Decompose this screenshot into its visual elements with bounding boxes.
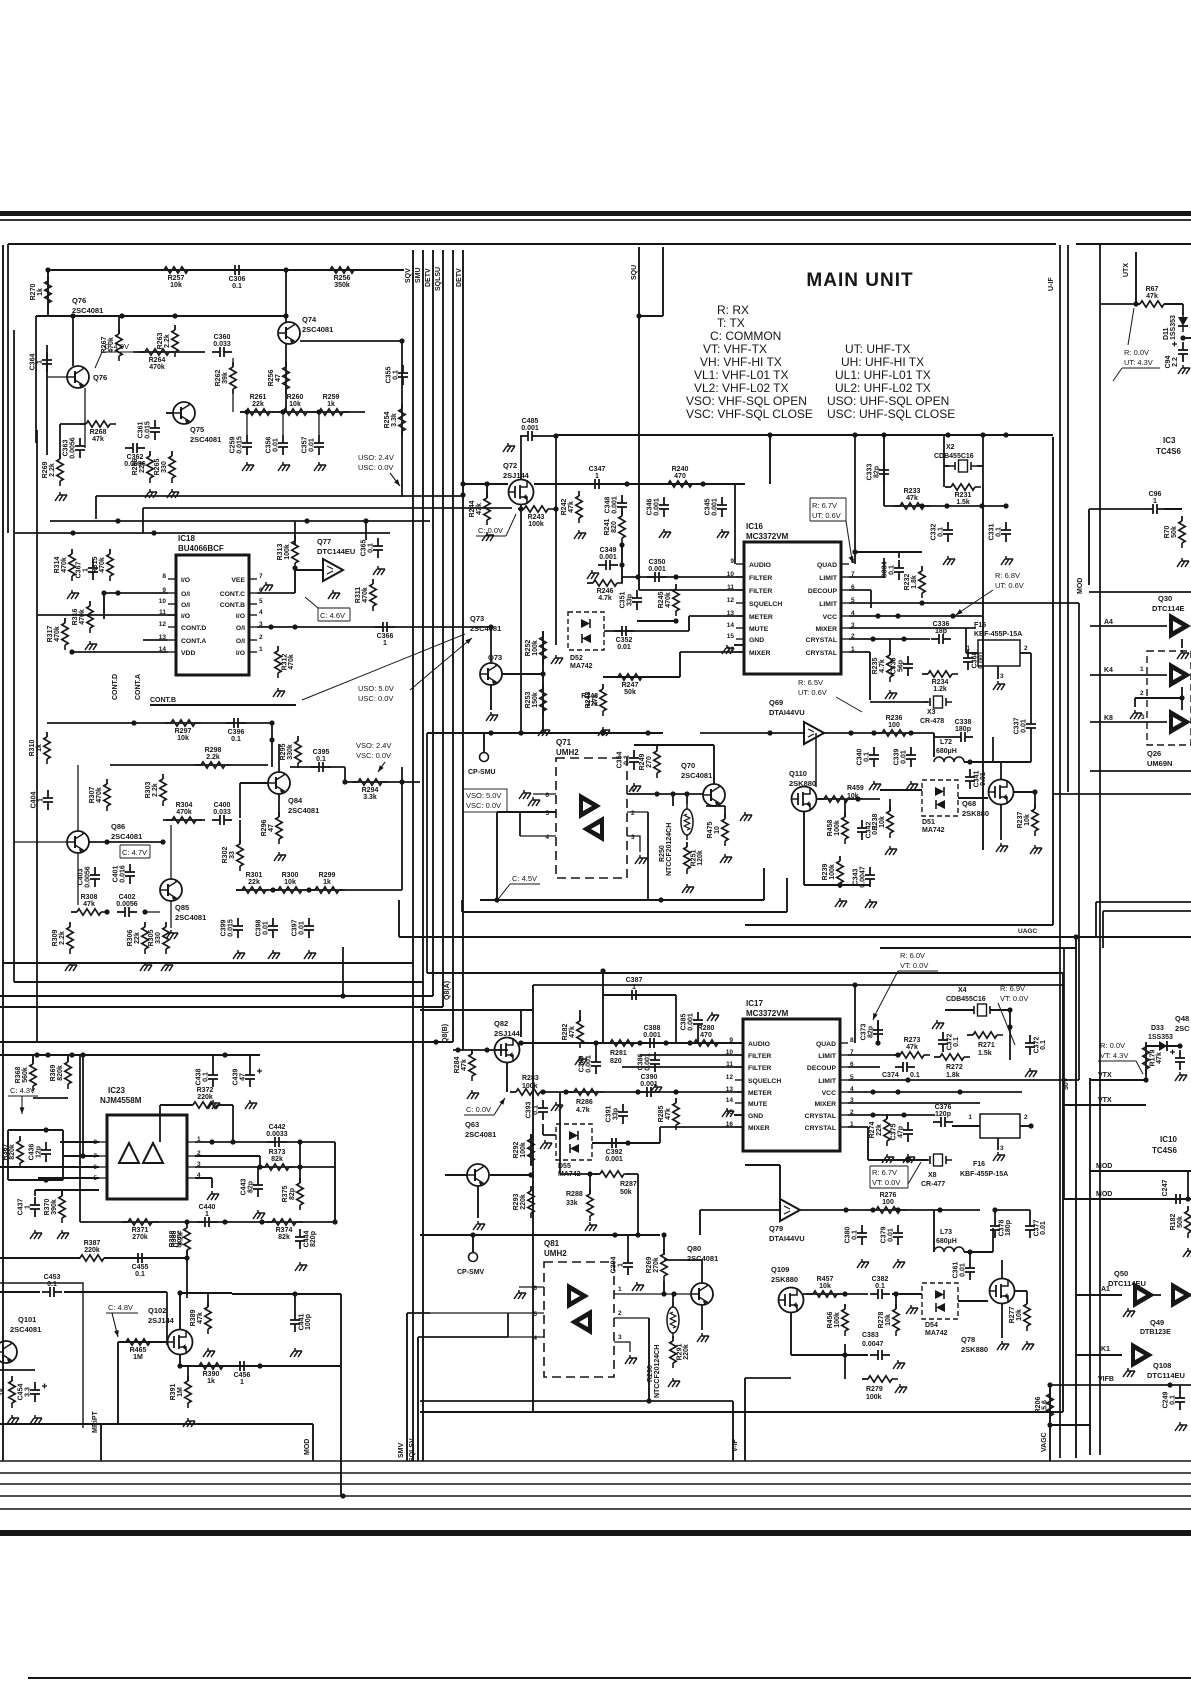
digital transistor Q30 [1169,613,1191,639]
wire [344,767,346,782]
ground Q108 [1123,1368,1135,1377]
label R287 [620,1181,637,1196]
wire [64,1291,167,1293]
svg-text:UH: UHF-HI TX: UH: UHF-HI TX [841,355,924,369]
svg-text:Q102: Q102 [148,1306,166,1315]
svg-text:C259: C259 [230,437,237,454]
net label 1SS353 [1170,315,1177,340]
wire [1014,1290,1027,1292]
wire Q72 drain [520,436,522,479]
frame Q101 box [0,1283,83,1428]
svg-text:2: 2 [618,1310,622,1317]
label R248 [581,693,598,708]
wire [271,723,273,767]
wire [38,1177,99,1179]
svg-text:0.001: 0.001 [648,566,666,573]
svg-text:1: 1 [38,798,45,802]
resistor R265 [154,451,175,483]
capacitor C352 [614,626,634,651]
IC17 pin 10 [726,1049,772,1060]
svg-text:C96: C96 [1149,491,1162,498]
IC16 pin 1 [806,646,855,657]
svg-text:R390: R390 [203,1371,220,1378]
capacitor C403 [78,866,101,888]
IC23 pin 3 [187,1161,201,1168]
plus mark [1170,1050,1175,1055]
label C: 4.7V [120,845,150,858]
wire [634,744,714,746]
svg-text:CDB455C16: CDB455C16 [946,996,986,1003]
svg-text:R279: R279 [866,1386,883,1393]
svg-text:DTB123E: DTB123E [1140,1329,1171,1336]
ground C345 [717,529,729,538]
svg-text:0.01: 0.01 [273,438,280,452]
resistor R67 [1134,286,1170,307]
label L72 [936,739,957,755]
resistor R375 [282,1178,303,1210]
junction [945,432,950,437]
svg-text:R245: R245 [658,592,665,609]
wire MOD2 [1064,1198,1191,1200]
wire [1063,1105,1065,1199]
label Q73 small [488,653,502,662]
wire [595,1043,597,1054]
wire [163,819,205,821]
svg-text:UTX: UTX [1123,263,1130,277]
label IC3 [1156,436,1181,456]
svg-text:C346: C346 [647,499,654,516]
svg-text:VSO: 2.4V: VSO: 2.4V [356,741,391,750]
wire [1034,792,1036,809]
svg-text:47p: 47p [898,1126,905,1138]
ground R391 [183,1418,195,1427]
capacitor C259 [230,435,253,455]
junction [950,613,955,618]
SQU jog [639,315,663,317]
resistor R280 [688,1025,724,1046]
net label VIFB [1098,1376,1114,1383]
resistor R308 [71,894,107,915]
leader arrow [465,638,472,644]
wire [407,1312,430,1314]
ground R253 [538,727,550,736]
wire [159,1105,161,1142]
IC17 section frame top [427,972,1063,974]
svg-text:470: 470 [700,1032,712,1039]
resistor R475 [707,814,728,846]
junction [843,1207,848,1212]
resistor R231 [945,484,981,506]
leader arrow [494,1098,505,1115]
label Q72 [503,461,530,480]
IC Q26 dashed box [1147,651,1191,745]
svg-text:220k: 220k [683,1344,690,1360]
resistor R456 [827,1304,848,1336]
wire CP-SMU row [427,732,663,734]
resistor R261 [240,394,276,415]
svg-text:14: 14 [727,622,735,629]
svg-text:C397: C397 [292,920,299,937]
svg-text:NTCCF20124CH: NTCCF20124CH [654,1345,661,1398]
svg-text:C360: C360 [214,334,231,341]
capacitor C375 [891,1122,914,1142]
resistor R236 [876,715,912,736]
wire [713,745,715,784]
svg-text:16: 16 [726,1121,734,1128]
ground [1025,1068,1037,1077]
svg-text:R272: R272 [946,1064,963,1071]
wire [627,1235,629,1255]
svg-text:0.01: 0.01 [309,438,316,452]
svg-text:0.1: 0.1 [996,527,1003,537]
svg-text:R283: R283 [522,1075,539,1082]
wire [555,436,557,645]
wire Q102 source [179,1355,181,1366]
svg-text:50k: 50k [624,689,636,696]
svg-text:22k: 22k [134,932,141,944]
svg-text:100k: 100k [866,1394,882,1401]
junction [340,993,345,998]
net label NTCCF20124CH [666,823,673,876]
svg-text:GND: GND [748,1113,763,1120]
resistor 1k [9,1376,15,1408]
svg-text:C403: C403 [78,869,85,886]
svg-text:2SK880: 2SK880 [962,809,989,818]
net label 50V [1063,1077,1070,1090]
junction [222,1052,227,1057]
ground R242 [574,530,586,539]
digital transistor Q50 [1133,1282,1155,1308]
capacitor C350 [647,559,667,582]
svg-text:12: 12 [727,597,735,604]
svg-text:0.1: 0.1 [316,756,326,763]
wire SQLSV [417,1337,419,1461]
svg-text:C398: C398 [256,920,263,937]
ground [67,590,79,599]
junction [304,518,309,523]
svg-text:C379: C379 [881,1227,888,1244]
label R 6.7V vt [870,1166,908,1188]
label R288 [566,1191,583,1207]
wire corner b [1103,910,1191,912]
svg-text:C333: C333 [867,464,874,481]
svg-text:UMH2: UMH2 [544,1249,567,1258]
ground pin4 [207,1191,219,1200]
wire [559,1092,561,1174]
svg-text:0.0056: 0.0056 [70,437,77,459]
resistor R266 [132,451,153,483]
junction [1179,695,1184,700]
leader arrow [112,1313,119,1337]
wire [67,1055,69,1060]
svg-text:R269: R269 [42,462,49,479]
wire [816,798,880,800]
wire [490,1174,531,1176]
resistor R301 [236,872,272,893]
capacitor C400 [212,802,232,825]
capacitor C335 [891,656,914,676]
svg-text:1: 1 [205,1211,209,1218]
wire mid [96,495,462,497]
net label MOD1 [1096,1163,1112,1170]
transistor Q75 symbol [173,402,195,424]
IC Q81 dashed box [544,1262,614,1377]
wire [542,1124,544,1135]
label C: 4.3V [8,1086,38,1096]
wire [1187,1171,1189,1199]
junction [209,1139,214,1144]
wire R301 row [236,889,402,891]
svg-text:R: 0.0V: R: 0.0V [1124,348,1149,357]
label R388 [171,1231,185,1248]
wire CONT.B [150,704,296,706]
svg-text:4: 4 [533,1335,537,1342]
transistor Q82 symbol [495,1038,520,1063]
UAGC wire [399,936,1191,938]
bus line 4 [0,1495,1191,1497]
junction [80,1052,85,1057]
capacitor C249 [1163,1390,1186,1410]
junction [1185,1196,1190,1201]
svg-text:180p: 180p [1005,1220,1012,1236]
capacitor C372 [1025,1035,1047,1055]
svg-text:MC3372VM: MC3372VM [746,532,789,541]
svg-text:R256: R256 [268,370,275,387]
wire right loop [334,1142,336,1222]
junction [494,897,499,902]
IC18 pin 9 [162,587,190,598]
svg-text:UT: 0.6V: UT: 0.6V [995,581,1024,590]
terminal CP-SMV [457,1253,485,1277]
wire pin6 to Q77 [257,592,295,594]
capacitor C391 [606,1104,629,1124]
IC16 pin 11 [727,584,772,595]
leader Q73 [302,634,465,700]
net label R250 [659,845,666,862]
svg-text:UL2: UHF-L02 TX: UL2: UHF-L02 TX [835,381,931,395]
junction [881,432,886,437]
junction [967,1249,972,1254]
wire [786,878,788,912]
wire LIMIT7 [849,576,884,578]
IC18 pin 8 [162,573,190,584]
wire K4 [1090,674,1167,676]
wire Q75 base [166,412,173,414]
svg-text:C393: C393 [526,1102,533,1119]
svg-text:3.3: 3.3 [25,1387,32,1397]
svg-text:R391: R391 [170,1384,177,1401]
wire [1050,1424,1090,1426]
legend VL1 [694,368,789,382]
junction [661,1291,666,1296]
net label MOD [304,1439,311,1455]
label C: 4.8V [106,1303,138,1313]
svg-text:R263: R263 [157,333,164,350]
label Q26 [1147,749,1172,768]
svg-text:C: COMMON: C: COMMON [710,329,781,343]
resistor R253 [525,684,546,716]
label R 6.5V [798,678,827,697]
svg-text:C331: C331 [989,524,996,541]
svg-text:0.033: 0.033 [213,341,231,348]
ground pin2 [1130,710,1142,719]
wire [59,424,61,458]
resistor R244 [469,493,490,525]
svg-text:Q77: Q77 [317,537,331,546]
fbank F15 box [966,640,1028,680]
IC17 pin 16 [726,1121,770,1132]
svg-text:VT: 0.0V: VT: 0.0V [900,961,928,970]
wire [672,1294,674,1307]
transistor Q110 symbol [792,787,817,812]
wire K8 [1090,721,1167,723]
transistor Q73 symbol [480,663,502,685]
wire pin1 row [195,1141,335,1143]
junction [905,1157,910,1162]
wire [218,1104,233,1106]
IC16 pin 7 [819,571,855,582]
svg-text:2SC4081: 2SC4081 [288,806,319,815]
svg-text:R268: R268 [90,429,107,436]
svg-text:R254: R254 [384,412,391,429]
net label DETV [425,268,432,287]
resistor R249 [639,746,660,778]
wire [869,652,871,700]
svg-text:AUDIO: AUDIO [749,562,771,569]
ground Q77 [328,590,340,599]
resistor R235 [872,650,893,682]
svg-text:R244: R244 [469,501,476,518]
capacitor C336 [931,621,951,644]
svg-text:CR-477: CR-477 [921,1181,945,1188]
svg-text:22k: 22k [139,461,146,473]
IC18 pin 2 [236,634,263,645]
IC16 pin 16 [727,646,771,657]
svg-text:C249: C249 [1163,1392,1170,1409]
svg-text:47k: 47k [92,436,104,443]
svg-text:R247: R247 [622,682,639,689]
svg-text:120p: 120p [935,1111,951,1118]
junction [619,562,624,567]
wire [1020,652,1031,654]
svg-text:A4: A4 [1104,619,1113,626]
resistor R268 [80,421,116,443]
wire corner a [1096,901,1191,903]
svg-text:2SC4081: 2SC4081 [111,832,142,841]
svg-text:R475: R475 [707,822,714,839]
svg-text:180p: 180p [955,726,971,733]
junction [684,791,689,796]
resistor R303 [145,774,166,806]
wire [60,423,85,425]
svg-text:C437: C437 [18,1199,25,1216]
svg-text:R465: R465 [130,1347,147,1354]
leader arrow [378,762,385,772]
svg-text:47: 47 [268,824,275,832]
capacitor C306 [227,265,247,290]
wire [0,1369,35,1371]
ground Q63 [473,1221,485,1230]
junction [895,1207,900,1212]
wire [1001,1304,1003,1338]
svg-text:0.033: 0.033 [213,809,231,816]
svg-text:R282: R282 [562,1024,569,1041]
label Q49b [1140,1329,1171,1336]
junction [455,1047,460,1052]
ground F16 [993,1152,1005,1161]
IC18 pin 10 [159,598,190,609]
ground [932,1020,944,1029]
wire pin4 [195,1177,212,1179]
svg-text:C338: C338 [955,719,972,726]
svg-text:0.001: 0.001 [688,1013,695,1031]
wire Q73 emitter [490,685,492,710]
wire [663,1281,665,1294]
wire CRYSTAL1 [849,651,870,653]
junction [69,1052,74,1057]
junction [870,1207,875,1212]
wire CP-SMU stem [483,733,485,752]
svg-text:2SC4081: 2SC4081 [190,435,221,444]
svg-text:CONT.D: CONT.D [181,625,206,632]
svg-text:82p: 82p [868,1026,875,1038]
ground R182 [1183,1248,1191,1257]
svg-text:0.1: 0.1 [533,1105,540,1115]
resistor R388 [169,1223,190,1255]
wire down-left [426,733,428,973]
wire [763,868,765,900]
svg-text:1: 1 [631,786,635,793]
wire [0,1423,313,1425]
ground R389 [203,1348,215,1357]
wire [1102,911,1104,948]
svg-text:820: 820 [610,1058,622,1065]
wire [240,782,268,784]
ground C332 [943,556,955,565]
wire [1000,805,1002,840]
svg-text:R264: R264 [149,357,166,364]
label Q68 [962,799,989,818]
digital transistor Q69 [804,722,824,744]
svg-text:Q108: Q108 [1153,1361,1171,1370]
ground R238 [885,846,897,855]
legend VSO [686,394,807,408]
wire [744,1378,746,1461]
ground C343 [865,899,877,908]
wire [992,737,994,762]
svg-text:0.1: 0.1 [889,565,896,575]
wire MIXER3 [849,627,976,629]
wire R261 row [240,411,365,413]
junction [244,409,249,414]
capacitor C351 [620,590,643,610]
capacitor C453 [42,1274,62,1297]
svg-text:2SK880: 2SK880 [789,779,816,788]
junction [895,1089,900,1094]
capacitor C456 [232,1361,252,1386]
wire [994,1210,996,1218]
resistor R232 [904,566,925,598]
resistor R254 [384,404,405,436]
dual diode D55 MA742 [556,1124,592,1178]
border top thick bar [0,211,1191,216]
capacitor C401 [113,864,136,884]
IC17 pin 14 [726,1097,768,1108]
svg-text:Q48: Q48 [1175,1014,1189,1023]
svg-text:100k: 100k [834,1312,841,1328]
label R459 [847,785,864,800]
wire Q82 source [506,1063,508,1092]
